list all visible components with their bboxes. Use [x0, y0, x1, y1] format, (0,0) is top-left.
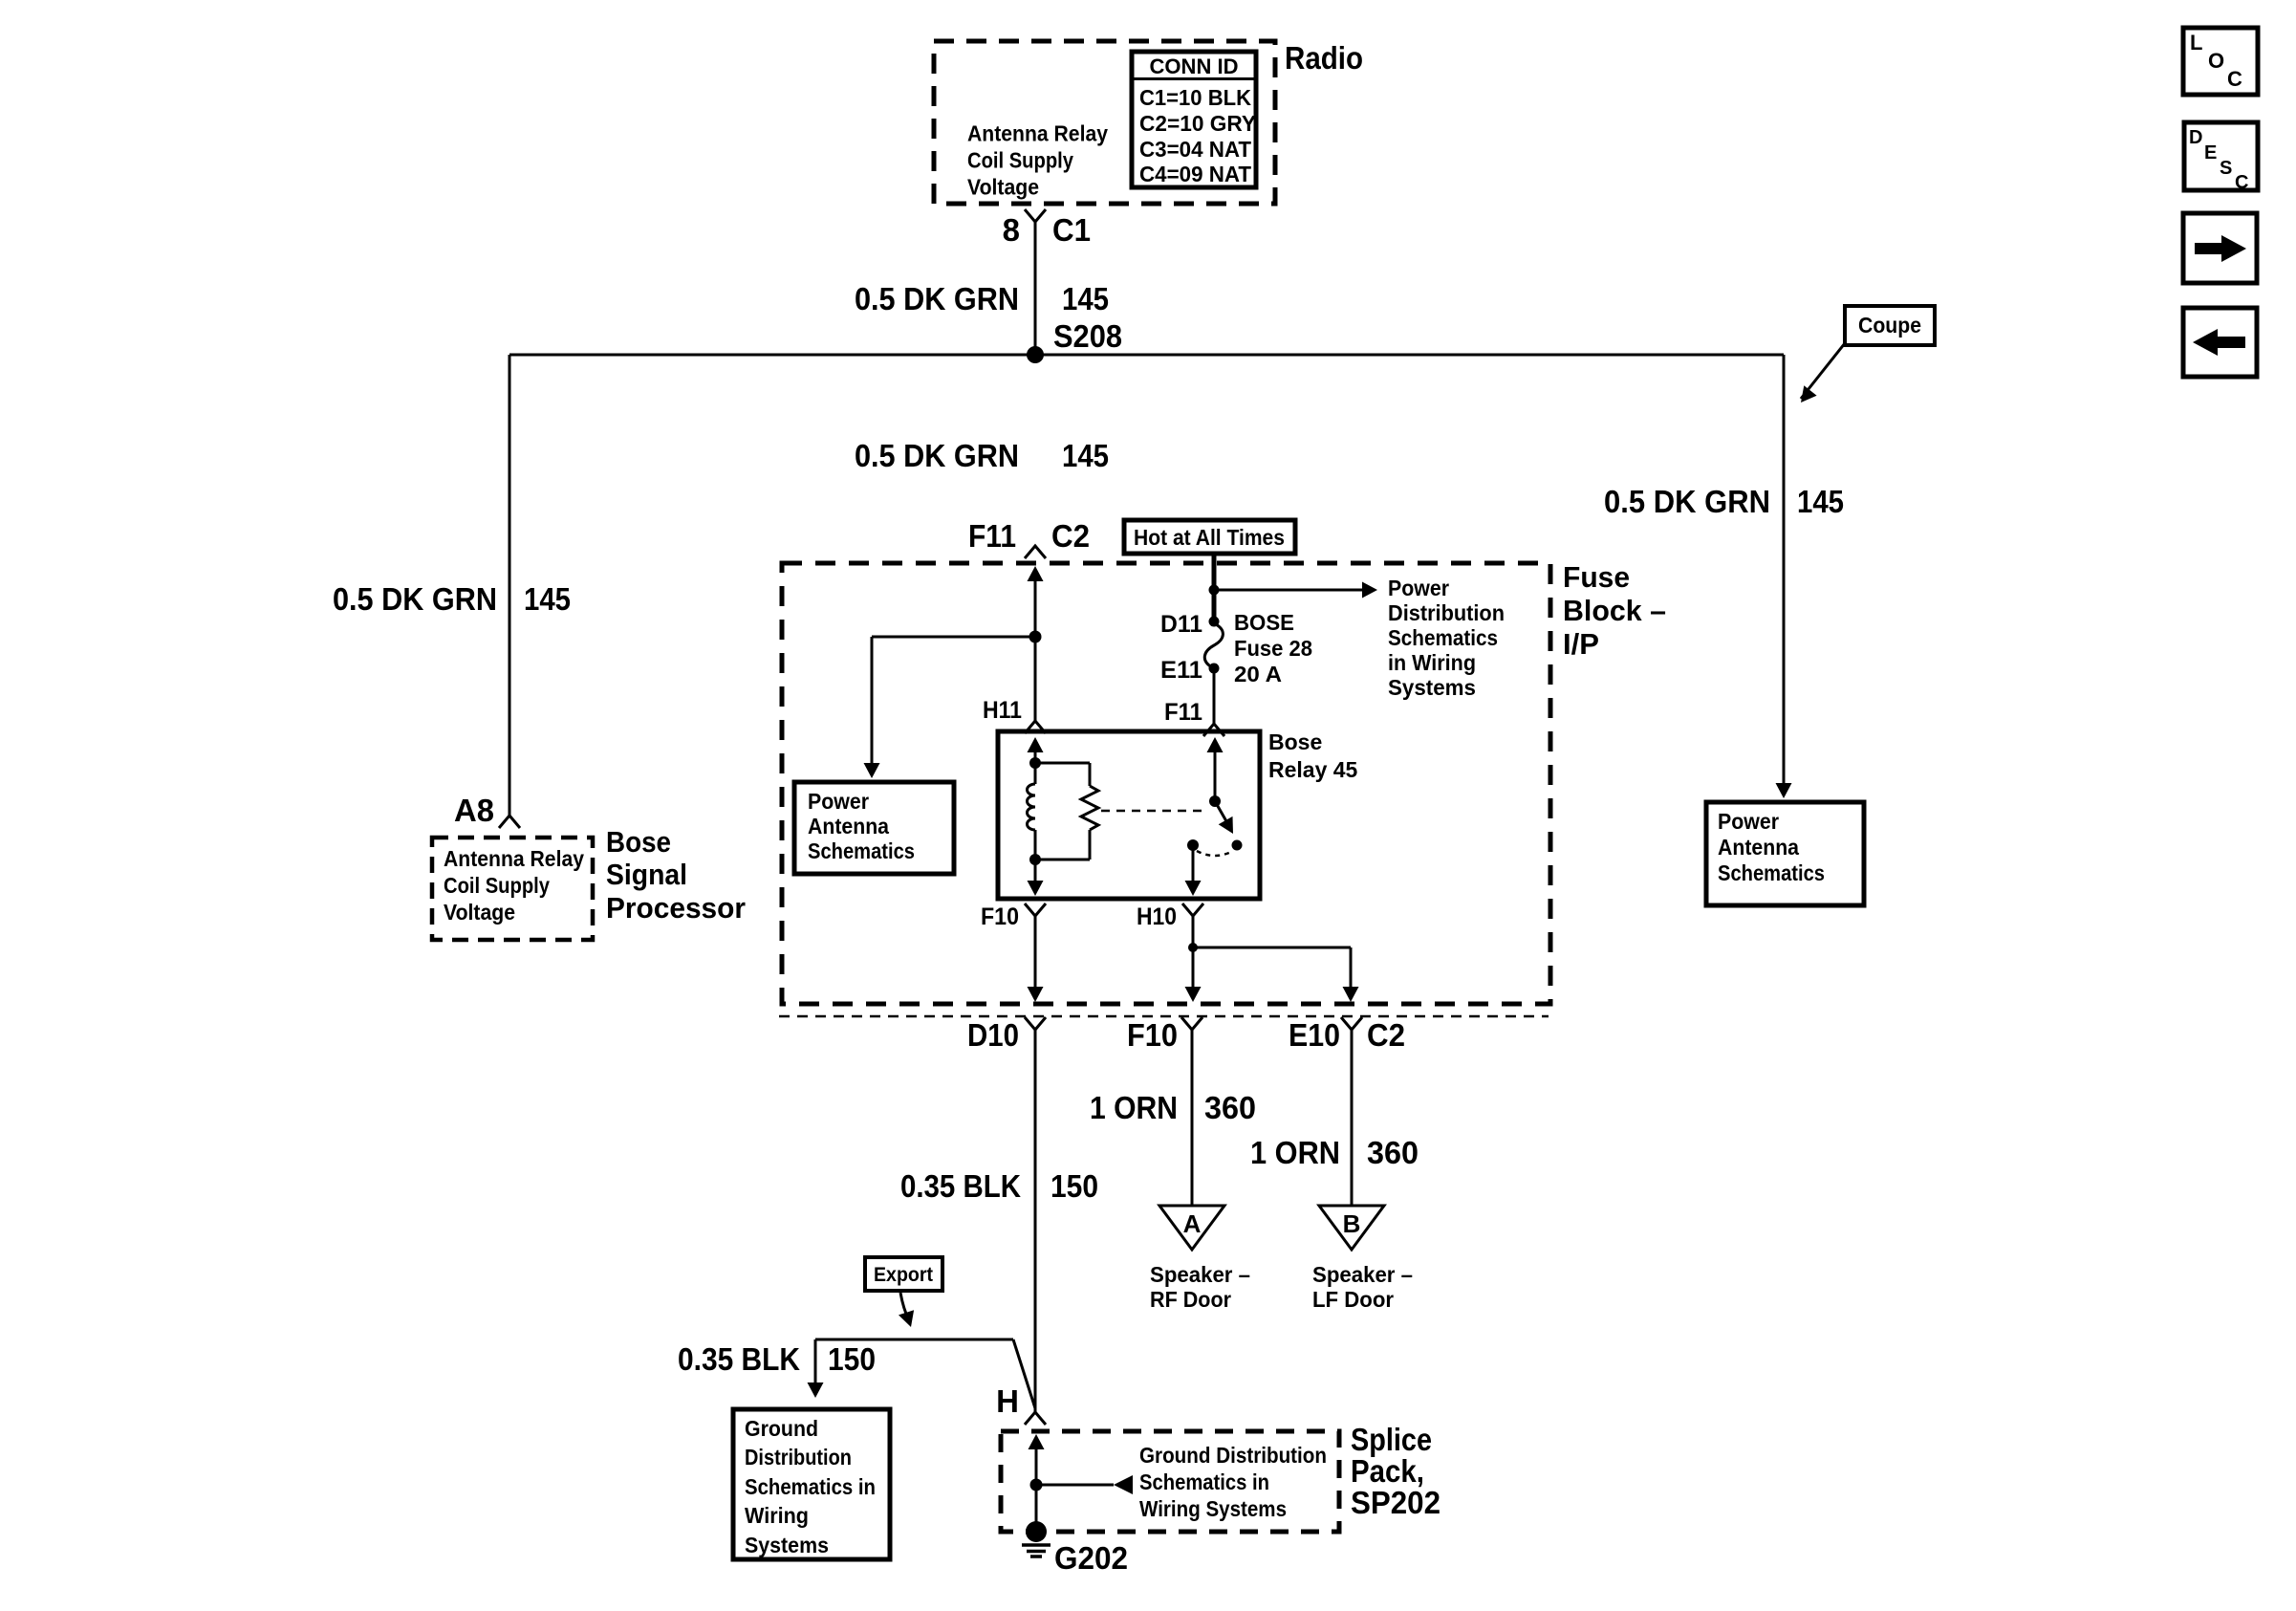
svg-text:Antenna Relay: Antenna Relay — [967, 121, 1108, 146]
svg-text:150: 150 — [828, 1341, 876, 1377]
svg-text:Fuse 28: Fuse 28 — [1234, 636, 1312, 661]
svg-text:RF Door: RF Door — [1150, 1287, 1231, 1312]
svg-text:Systems: Systems — [745, 1533, 829, 1557]
svg-text:D10: D10 — [967, 1017, 1019, 1053]
svg-text:D: D — [2189, 127, 2202, 148]
svg-text:Antenna: Antenna — [1718, 835, 1799, 860]
svg-text:S208: S208 — [1053, 318, 1122, 354]
svg-text:Distribution: Distribution — [745, 1445, 852, 1469]
svg-text:F10: F10 — [981, 903, 1019, 930]
svg-text:Schematics in: Schematics in — [745, 1474, 876, 1499]
svg-text:0.5 DK GRN: 0.5 DK GRN — [855, 281, 1019, 316]
svg-text:O: O — [2208, 49, 2224, 73]
svg-text:Speaker –: Speaker – — [1312, 1262, 1413, 1287]
svg-text:Schematics: Schematics — [1718, 860, 1825, 885]
svg-text:360: 360 — [1204, 1090, 1256, 1125]
svg-text:Pack,: Pack, — [1351, 1453, 1424, 1489]
svg-text:Ground Distribution: Ground Distribution — [1139, 1443, 1327, 1468]
svg-text:Bose: Bose — [1268, 729, 1322, 754]
svg-text:0.5 DK GRN: 0.5 DK GRN — [1604, 484, 1770, 519]
svg-text:C2: C2 — [1367, 1017, 1405, 1053]
svg-text:Systems: Systems — [1388, 675, 1476, 700]
svg-text:L: L — [2190, 31, 2202, 54]
svg-text:E10: E10 — [1289, 1017, 1340, 1053]
svg-text:Relay 45: Relay 45 — [1268, 757, 1358, 782]
svg-text:360: 360 — [1367, 1135, 1419, 1170]
svg-text:1 ORN: 1 ORN — [1090, 1090, 1178, 1125]
svg-text:D11: D11 — [1160, 611, 1202, 638]
svg-text:Antenna: Antenna — [808, 814, 889, 838]
svg-text:0.5 DK GRN: 0.5 DK GRN — [855, 438, 1019, 473]
svg-text:I/P: I/P — [1563, 627, 1599, 661]
svg-text:H10: H10 — [1137, 903, 1177, 930]
svg-text:C2=10 GRY: C2=10 GRY — [1139, 111, 1256, 136]
svg-text:Distribution: Distribution — [1388, 600, 1505, 625]
svg-text:C3=04 NAT: C3=04 NAT — [1139, 137, 1251, 162]
svg-text:Coil Supply: Coil Supply — [444, 873, 550, 898]
svg-text:S: S — [2220, 158, 2232, 179]
svg-text:Export: Export — [874, 1264, 933, 1286]
svg-text:Radio: Radio — [1285, 40, 1363, 76]
svg-text:Processor: Processor — [606, 891, 746, 925]
svg-text:G202: G202 — [1054, 1540, 1128, 1576]
svg-text:0.5 DK GRN: 0.5 DK GRN — [333, 581, 497, 617]
svg-text:Hot at All Times: Hot at All Times — [1134, 525, 1285, 550]
svg-text:145: 145 — [1797, 484, 1844, 519]
svg-text:Bose: Bose — [606, 825, 671, 859]
svg-text:E: E — [2204, 142, 2217, 163]
svg-text:0.35 BLK: 0.35 BLK — [900, 1168, 1021, 1204]
svg-text:20 A: 20 A — [1234, 662, 1282, 686]
svg-text:Speaker –: Speaker – — [1150, 1262, 1250, 1287]
svg-text:C1: C1 — [1052, 212, 1091, 248]
svg-text:SP202: SP202 — [1351, 1485, 1440, 1520]
svg-text:Antenna Relay: Antenna Relay — [444, 846, 584, 871]
svg-text:Coupe: Coupe — [1858, 313, 1921, 337]
svg-text:Wiring Systems: Wiring Systems — [1139, 1496, 1287, 1521]
svg-text:F11: F11 — [1164, 699, 1202, 726]
svg-text:Schematics: Schematics — [1388, 625, 1498, 650]
svg-text:Voltage: Voltage — [967, 175, 1039, 200]
svg-text:145: 145 — [1062, 438, 1109, 473]
svg-text:C: C — [2227, 67, 2242, 91]
svg-text:F10: F10 — [1127, 1017, 1178, 1053]
svg-text:Power: Power — [1388, 576, 1449, 600]
svg-text:A8: A8 — [454, 793, 494, 828]
svg-text:H11: H11 — [983, 697, 1022, 724]
svg-text:CONN ID: CONN ID — [1150, 54, 1239, 78]
svg-text:A: A — [1183, 1209, 1202, 1238]
svg-text:Wiring: Wiring — [745, 1503, 809, 1528]
svg-text:C1=10 BLK: C1=10 BLK — [1139, 85, 1251, 110]
svg-text:Coil Supply: Coil Supply — [967, 148, 1073, 173]
svg-text:LF Door: LF Door — [1312, 1287, 1394, 1312]
svg-text:Power: Power — [1718, 809, 1779, 834]
svg-text:Power: Power — [808, 789, 869, 814]
svg-text:Schematics: Schematics — [808, 838, 915, 863]
svg-text:C2: C2 — [1051, 518, 1090, 554]
svg-text:150: 150 — [1051, 1168, 1098, 1204]
svg-text:Fuse: Fuse — [1563, 560, 1630, 594]
svg-text:8: 8 — [1003, 212, 1020, 248]
svg-text:Ground: Ground — [745, 1416, 818, 1441]
svg-text:B: B — [1343, 1209, 1361, 1238]
svg-text:Schematics in: Schematics in — [1139, 1469, 1269, 1494]
svg-text:E11: E11 — [1160, 657, 1202, 684]
svg-text:H: H — [996, 1383, 1019, 1419]
svg-text:0.35 BLK: 0.35 BLK — [678, 1341, 800, 1377]
svg-text:145: 145 — [524, 581, 571, 617]
svg-text:C: C — [2235, 172, 2248, 193]
svg-text:C4=09 NAT: C4=09 NAT — [1139, 162, 1251, 186]
svg-text:F11: F11 — [968, 518, 1016, 554]
svg-text:Splice: Splice — [1351, 1422, 1432, 1457]
svg-text:Voltage: Voltage — [444, 900, 515, 925]
svg-text:BOSE: BOSE — [1234, 610, 1294, 635]
svg-text:Signal: Signal — [606, 858, 687, 891]
svg-text:in Wiring: in Wiring — [1388, 650, 1476, 675]
svg-text:1 ORN: 1 ORN — [1250, 1135, 1340, 1170]
svg-text:Block –: Block – — [1563, 594, 1666, 627]
svg-text:145: 145 — [1062, 281, 1109, 316]
